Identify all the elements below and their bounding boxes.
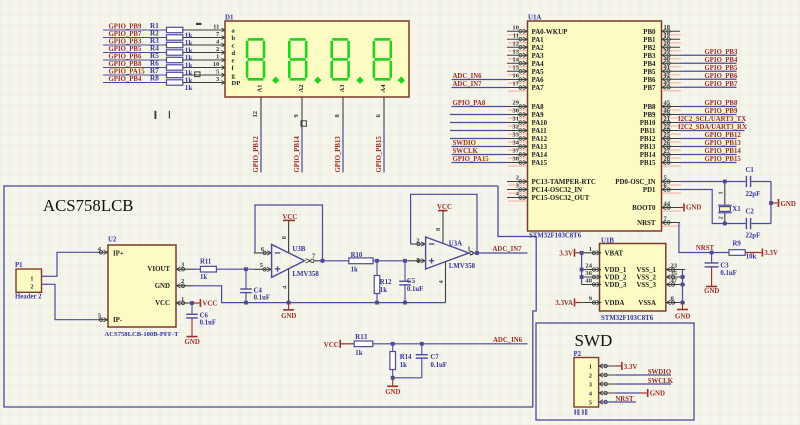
svg-text:SWDIO: SWDIO <box>648 369 671 376</box>
svg-text:I2C2_SCL/UART3_TX: I2C2_SCL/UART3_TX <box>678 116 746 123</box>
svg-text:36: 36 <box>585 270 592 277</box>
svg-text:d: d <box>232 50 236 57</box>
svg-text:17: 17 <box>512 81 519 88</box>
svg-text:1k: 1k <box>200 274 207 281</box>
svg-text:26: 26 <box>664 139 671 146</box>
svg-text:10: 10 <box>512 24 519 31</box>
svg-text:GND: GND <box>155 283 170 290</box>
svg-text:C6: C6 <box>200 312 209 319</box>
svg-text:GND: GND <box>675 314 690 321</box>
svg-text:VDD_3: VDD_3 <box>605 282 627 289</box>
svg-text:41: 41 <box>664 64 671 71</box>
svg-text:PB13: PB13 <box>640 144 656 151</box>
svg-text:GPIO_PB15: GPIO_PB15 <box>705 156 742 163</box>
svg-text:GND: GND <box>781 201 796 208</box>
svg-text:VSS_3: VSS_3 <box>636 282 656 289</box>
svg-text:C3: C3 <box>720 262 729 269</box>
svg-text:PA2: PA2 <box>532 45 545 52</box>
svg-text:GPIO_PB4: GPIO_PB4 <box>109 76 142 83</box>
svg-text:3.3V: 3.3V <box>559 250 573 257</box>
svg-text:ADC_IN6: ADC_IN6 <box>493 337 523 344</box>
svg-text:2: 2 <box>718 216 725 219</box>
svg-text:22pF: 22pF <box>746 233 761 240</box>
svg-text:PA4: PA4 <box>532 61 545 68</box>
svg-text:PA14: PA14 <box>532 152 548 159</box>
svg-text:GPIO_PB14: GPIO_PB14 <box>294 136 301 173</box>
svg-text:C4: C4 <box>254 287 263 294</box>
svg-text:PB4: PB4 <box>643 61 656 68</box>
svg-text:C1: C1 <box>746 167 755 174</box>
svg-text:18: 18 <box>664 24 671 31</box>
svg-text:0.1uF: 0.1uF <box>254 294 270 301</box>
svg-text:GPIO_PB5: GPIO_PB5 <box>705 65 738 72</box>
svg-text:GPIO_PB9: GPIO_PB9 <box>705 108 738 115</box>
svg-text:SWCLK: SWCLK <box>453 148 479 155</box>
svg-text:ADC_IN7: ADC_IN7 <box>493 246 523 253</box>
svg-text:22pF: 22pF <box>746 191 761 198</box>
svg-text:IP-: IP- <box>113 317 123 324</box>
svg-text:PB15: PB15 <box>640 160 656 167</box>
svg-text:10k: 10k <box>746 253 757 260</box>
svg-text:38: 38 <box>512 156 519 163</box>
svg-text:VSSA: VSSA <box>638 300 656 307</box>
svg-text:PA12: PA12 <box>532 136 548 143</box>
svg-text:GND: GND <box>686 204 701 211</box>
svg-text:PB7: PB7 <box>643 85 656 92</box>
svg-text:GPIO_PB13: GPIO_PB13 <box>705 140 742 147</box>
svg-text:VSS_1: VSS_1 <box>636 267 656 274</box>
svg-text:22: 22 <box>664 123 671 130</box>
svg-text:PB1: PB1 <box>643 37 656 44</box>
svg-text:PA13: PA13 <box>532 144 548 151</box>
svg-text:DP: DP <box>232 80 241 87</box>
svg-text:40: 40 <box>664 56 671 63</box>
svg-text:11: 11 <box>513 32 519 39</box>
svg-text:27: 27 <box>664 147 671 154</box>
svg-text:3.3V: 3.3V <box>764 250 778 257</box>
svg-text:PB6: PB6 <box>643 77 656 84</box>
svg-text:U3B: U3B <box>292 246 305 253</box>
svg-text:SWDIO: SWDIO <box>453 140 476 147</box>
svg-text:GPIO_PA8: GPIO_PA8 <box>453 100 486 107</box>
svg-text:PC14-OSC32_IN: PC14-OSC32_IN <box>532 187 583 194</box>
svg-text:0.1uF: 0.1uF <box>200 320 216 327</box>
svg-text:ADC_IN6: ADC_IN6 <box>453 73 483 80</box>
svg-text:IP+: IP+ <box>113 250 124 257</box>
svg-text:R13: R13 <box>355 334 367 341</box>
svg-text:PA10: PA10 <box>532 120 548 127</box>
svg-text:1k: 1k <box>400 362 407 369</box>
svg-text:12: 12 <box>512 40 519 47</box>
svg-text:PD1: PD1 <box>643 187 656 194</box>
svg-text:46: 46 <box>664 107 671 114</box>
svg-text:LMV358: LMV358 <box>292 271 319 278</box>
svg-text:GPIO_PB6: GPIO_PB6 <box>705 73 738 80</box>
svg-text:1: 1 <box>589 246 592 253</box>
svg-text:VDD_2: VDD_2 <box>605 275 627 282</box>
svg-text:28: 28 <box>664 155 671 162</box>
svg-text:LMV358: LMV358 <box>449 263 476 270</box>
svg-text:C7: C7 <box>431 354 440 361</box>
svg-text:A2: A2 <box>298 85 305 93</box>
svg-text:3.3V: 3.3V <box>624 364 638 371</box>
svg-text:31: 31 <box>512 116 519 123</box>
svg-text:R9: R9 <box>733 241 742 248</box>
svg-text:U3A: U3A <box>449 241 462 248</box>
svg-text:PB8: PB8 <box>643 104 656 111</box>
svg-text:1: 1 <box>589 363 592 370</box>
svg-text:PC13-TAMPER-RTC: PC13-TAMPER-RTC <box>532 179 596 186</box>
svg-text:PA3: PA3 <box>532 53 545 60</box>
svg-text:R11: R11 <box>200 259 212 266</box>
svg-text:1: 1 <box>181 296 184 303</box>
svg-text:PA1: PA1 <box>532 37 545 44</box>
svg-text:39: 39 <box>664 48 671 55</box>
svg-text:GPIO_PB4: GPIO_PB4 <box>705 57 738 64</box>
svg-text:16: 16 <box>512 73 519 80</box>
svg-text:PA0-WKUP: PA0-WKUP <box>532 29 569 36</box>
svg-text:PB14: PB14 <box>640 152 656 159</box>
svg-text:47: 47 <box>671 278 678 285</box>
svg-text:8: 8 <box>281 236 288 239</box>
svg-text:GPIO_PB12: GPIO_PB12 <box>705 132 742 139</box>
svg-text:VSS_2: VSS_2 <box>636 275 656 282</box>
svg-text:29: 29 <box>512 100 519 107</box>
svg-text:44: 44 <box>664 200 671 207</box>
svg-text:VCC: VCC <box>202 301 217 308</box>
svg-text:12: 12 <box>252 110 259 117</box>
svg-text:1k: 1k <box>185 84 193 92</box>
svg-text:43: 43 <box>664 80 671 87</box>
svg-text:PA7: PA7 <box>532 85 545 92</box>
svg-text:GND: GND <box>385 389 400 396</box>
svg-text:GPIO_PA15: GPIO_PA15 <box>453 156 490 163</box>
svg-text:PA11: PA11 <box>532 128 548 135</box>
svg-text:PB5: PB5 <box>643 69 656 76</box>
svg-text:GPIO_PB7: GPIO_PB7 <box>109 31 142 38</box>
svg-text:D1: D1 <box>225 15 234 22</box>
svg-text:PB12: PB12 <box>640 136 656 143</box>
svg-text:PA6: PA6 <box>532 77 545 84</box>
svg-text:0.1uF: 0.1uF <box>407 286 423 293</box>
svg-text:GPIO_PB14: GPIO_PB14 <box>705 148 742 155</box>
svg-text:1: 1 <box>718 191 725 194</box>
svg-text:GPIO_PB5: GPIO_PB5 <box>109 46 142 53</box>
svg-text:15: 15 <box>512 64 519 71</box>
svg-text:GPIO_PB13: GPIO_PB13 <box>335 136 342 173</box>
svg-text:GPIO_PB8: GPIO_PB8 <box>109 61 142 68</box>
svg-text:PB3: PB3 <box>643 53 656 60</box>
svg-text:PB0: PB0 <box>643 29 656 36</box>
svg-text:PB10: PB10 <box>640 120 656 127</box>
svg-text:GPIO_PB8: GPIO_PB8 <box>705 100 738 107</box>
svg-text:35: 35 <box>671 270 678 277</box>
svg-text:R12: R12 <box>380 279 392 286</box>
svg-text:SWD: SWD <box>575 331 613 350</box>
svg-text:b: b <box>232 35 236 42</box>
svg-text:GND: GND <box>281 313 296 320</box>
svg-text:10: 10 <box>213 61 220 68</box>
svg-text:1k: 1k <box>351 267 358 274</box>
svg-text:PC15-OSC32_OUT: PC15-OSC32_OUT <box>532 195 590 202</box>
svg-text:GND: GND <box>185 339 200 346</box>
svg-text:P1: P1 <box>15 262 23 269</box>
svg-text:PB9: PB9 <box>643 112 656 119</box>
svg-text:25: 25 <box>664 131 671 138</box>
svg-text:U1A: U1A <box>528 15 541 22</box>
svg-text:PB2: PB2 <box>643 45 656 52</box>
svg-text:I2C2_SDA/UART3_RX: I2C2_SDA/UART3_RX <box>678 124 747 131</box>
svg-text:R14: R14 <box>400 354 412 361</box>
svg-text:VIOUT: VIOUT <box>147 266 170 273</box>
svg-text:VDD_1: VDD_1 <box>605 267 627 274</box>
svg-text:GPIO_PB9: GPIO_PB9 <box>109 24 142 31</box>
svg-text:GPIO_PB7: GPIO_PB7 <box>705 81 738 88</box>
svg-text:45: 45 <box>664 99 671 106</box>
svg-text:A3: A3 <box>339 84 346 93</box>
svg-text:STM32F103C8T6: STM32F103C8T6 <box>601 315 654 322</box>
svg-text:23: 23 <box>671 263 678 270</box>
svg-text:8: 8 <box>435 228 442 231</box>
svg-text:0.1uF: 0.1uF <box>720 270 736 277</box>
svg-text:GND: GND <box>704 288 719 295</box>
svg-text:PA15: PA15 <box>532 160 548 167</box>
svg-text:A4: A4 <box>380 84 387 93</box>
svg-text:1: 1 <box>30 275 33 282</box>
svg-text:VCC: VCC <box>155 300 170 307</box>
svg-text:Header 2: Header 2 <box>15 294 42 301</box>
svg-text:VDDA: VDDA <box>605 300 625 307</box>
svg-text:R8: R8 <box>150 74 159 82</box>
svg-text:3.3VA: 3.3VA <box>555 300 573 307</box>
svg-text:GPIO_PB15: GPIO_PB15 <box>376 136 383 173</box>
svg-text:PD0-OSC_IN: PD0-OSC_IN <box>615 179 655 186</box>
svg-text:48: 48 <box>585 278 592 285</box>
svg-text:X1: X1 <box>732 206 741 213</box>
svg-text:PA5: PA5 <box>532 69 545 76</box>
svg-text:BOOT0: BOOT0 <box>632 205 656 212</box>
svg-text:GPIO_PB12: GPIO_PB12 <box>253 136 260 173</box>
svg-text:GPIO_PB3: GPIO_PB3 <box>109 39 142 46</box>
svg-text:PB11: PB11 <box>640 128 656 135</box>
svg-text:VCC: VCC <box>324 342 339 349</box>
svg-text:SWCLK: SWCLK <box>648 378 674 385</box>
svg-text:NRST: NRST <box>615 396 634 403</box>
svg-text:ACS758LCB-100B-PFF-T: ACS758LCB-100B-PFF-T <box>105 331 180 338</box>
svg-text:34: 34 <box>512 140 519 147</box>
svg-text:33: 33 <box>512 132 519 139</box>
svg-text:C2: C2 <box>746 208 755 215</box>
svg-text:c: c <box>232 42 235 49</box>
svg-text:0.1uF: 0.1uF <box>431 362 447 369</box>
svg-text:42: 42 <box>664 72 671 79</box>
svg-text:NRST: NRST <box>637 220 656 227</box>
svg-text:14: 14 <box>512 56 519 63</box>
svg-text:37: 37 <box>512 148 519 155</box>
svg-text:U2: U2 <box>108 236 117 243</box>
svg-text:32: 32 <box>512 124 519 131</box>
svg-text:PA9: PA9 <box>532 112 545 119</box>
svg-text:GPIO_PA15: GPIO_PA15 <box>109 69 146 76</box>
svg-text:STM32F103C8T6: STM32F103C8T6 <box>529 233 582 240</box>
svg-text:1: 1 <box>216 54 219 61</box>
svg-text:NRST: NRST <box>696 245 715 252</box>
svg-text:1k: 1k <box>380 287 387 294</box>
svg-text:13: 13 <box>512 48 519 55</box>
svg-text:GPIO_PB3: GPIO_PB3 <box>705 49 738 56</box>
svg-text:ADC_IN7: ADC_IN7 <box>453 81 483 88</box>
svg-text:PA8: PA8 <box>532 104 545 111</box>
svg-text:ACS758LCB: ACS758LCB <box>43 196 133 215</box>
svg-text:11: 11 <box>213 24 219 31</box>
svg-text:U1B: U1B <box>601 237 614 244</box>
svg-text:R10: R10 <box>351 252 363 259</box>
svg-text:1k: 1k <box>355 350 362 357</box>
svg-text:21: 21 <box>664 115 671 122</box>
svg-text:VBAT: VBAT <box>605 250 624 257</box>
svg-text:GPIO_PB6: GPIO_PB6 <box>109 54 142 61</box>
svg-text:C5: C5 <box>407 278 416 285</box>
svg-text:A1: A1 <box>257 85 264 93</box>
svg-text:30: 30 <box>512 108 519 115</box>
svg-text:GND: GND <box>650 391 665 398</box>
svg-text:1: 1 <box>467 245 470 252</box>
svg-text:19: 19 <box>664 32 671 39</box>
svg-text:24: 24 <box>585 263 592 270</box>
svg-text:20: 20 <box>664 40 671 47</box>
svg-text:e: e <box>232 57 235 64</box>
